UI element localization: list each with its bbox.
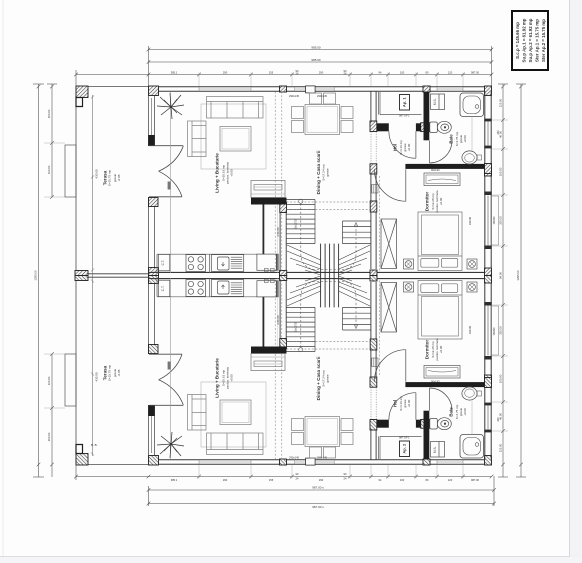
svg-text:290: 290	[223, 478, 228, 482]
dimension line: right outer total	[516, 84, 526, 477]
svg-text:Hol: Hol	[393, 400, 398, 407]
room label: Dormitor Ap1	[425, 190, 444, 213]
svg-text:155: 155	[269, 478, 274, 482]
svg-text:Living + Bucatarie: Living + Bucatarie	[215, 358, 220, 398]
svg-text:Ster Ap.1 = 15.75 mp: Ster Ap.1 = 15.75 mp	[535, 19, 540, 62]
top half of duplex plan	[65, 86, 499, 276]
room label: Terasa Ap2	[102, 365, 121, 382]
svg-text:+0.00: +0.00	[439, 197, 443, 205]
svg-text:Su.p Ap.1 = 61.92 mp: Su.p Ap.1 = 61.92 mp	[522, 18, 527, 62]
svg-text:Dining + Casa scarii: Dining + Casa scarii	[316, 357, 321, 401]
room label: Dormitor Ap2	[425, 338, 444, 361]
page left faint edge	[2, 0, 4, 556]
svg-text:290: 290	[319, 71, 324, 75]
dimension line: bottom total 2	[147, 502, 496, 506]
dimension line: top total 2	[147, 60, 494, 64]
svg-text:335.00: 335.00	[499, 326, 503, 335]
svg-text:Dormitor: Dormitor	[425, 192, 430, 212]
svg-text:S.c.p = 145.66 mp: S.c.p = 145.66 mp	[515, 22, 520, 59]
svg-text:385.1: 385.1	[171, 71, 178, 75]
svg-text:Su.p Ap.2 = 61.92 mp: Su.p Ap.2 = 61.92 mp	[528, 18, 533, 62]
svg-text:290x145: 290x145	[317, 94, 328, 98]
svg-text:1295.00: 1295.00	[34, 270, 38, 281]
svg-text:+0.00: +0.00	[407, 143, 411, 151]
room label: Dining+Casa scarii Ap2	[316, 357, 330, 401]
svg-text:+0.00: +0.00	[407, 399, 411, 407]
page right edge shading	[570, 0, 582, 563]
svg-text:C.T.: C.T.	[161, 260, 165, 266]
svg-text:385.1: 385.1	[171, 478, 178, 482]
svg-text:120: 120	[448, 71, 453, 75]
svg-text:+0.00: +0.00	[230, 169, 234, 177]
svg-text:16x17/28: 16x17/28	[295, 218, 298, 229]
svg-text:+0.00: +0.00	[463, 408, 467, 416]
svg-text:S=15.75 mp: S=15.75 mp	[108, 170, 112, 187]
svg-text:987.00: 987.00	[471, 478, 479, 482]
svg-text:Hol: Hol	[393, 144, 398, 151]
svg-text:290: 290	[319, 478, 324, 482]
dimension line: bottom detail	[74, 465, 493, 480]
dimension line: left inner segments	[44, 84, 65, 477]
svg-text:98? SP 1: 98? SP 1	[399, 114, 410, 118]
svg-text:115.00: 115.00	[499, 443, 503, 452]
svg-text:290x145: 290x145	[289, 94, 300, 98]
room label: Baie Ap2	[449, 404, 468, 419]
svg-text:+0.00: +0.00	[439, 345, 443, 353]
svg-text:240.00: 240.00	[276, 315, 280, 325]
dimension line: right inner	[492, 84, 509, 477]
svg-text:gresie: gresie	[325, 374, 329, 383]
svg-text:120: 120	[448, 478, 453, 482]
page bottom edge shading	[0, 557, 582, 563]
svg-text:100: 100	[400, 478, 405, 482]
svg-text:Dormitor: Dormitor	[425, 340, 430, 360]
svg-text:-0.05: -0.05	[117, 174, 121, 181]
svg-text:C.T.: C.T.	[161, 285, 165, 291]
svg-text:240.00: 240.00	[276, 227, 280, 237]
room label: Living+Bucatarie Ap2	[215, 358, 234, 398]
svg-text:98? SP 1: 98? SP 1	[399, 436, 410, 440]
svg-text:115.00: 115.00	[499, 98, 503, 107]
svg-text:Living + Bucatarie: Living + Bucatarie	[215, 153, 220, 193]
svg-text:-0.05: -0.05	[117, 369, 121, 376]
svg-text:985.00: 985.00	[311, 58, 321, 62]
dimension line: top detail	[74, 70, 493, 86]
svg-text:200.00: 200.00	[47, 432, 51, 441]
svg-text:16x17/28: 16x17/28	[295, 321, 298, 332]
svg-text:+0.00: +0.00	[463, 135, 467, 143]
svg-text:340.00: 340.00	[468, 325, 472, 334]
svg-text:46.00: 46.00	[499, 413, 503, 420]
svg-text:Baie: Baie	[449, 407, 454, 417]
svg-text:gresie: gresie	[325, 168, 329, 177]
svg-text:160/90: 160/90	[492, 216, 496, 224]
svg-text:160.00: 160.00	[47, 165, 51, 174]
bottom half of duplex plan (mirrored)	[65, 276, 499, 466]
svg-text:335.00: 335.00	[499, 216, 503, 225]
svg-text:Ap. 1: Ap. 1	[401, 97, 406, 108]
svg-text:985.00: 985.00	[311, 45, 321, 49]
room label: Hol Ap2	[393, 396, 412, 411]
label: Ap.2 entry box	[399, 436, 410, 457]
svg-text:987.00: 987.00	[471, 71, 479, 75]
svg-text:987.00 s: 987.00 s	[312, 505, 324, 509]
svg-text:290x145: 290x145	[289, 455, 300, 459]
svg-text:B. B.: B. B.	[91, 443, 98, 447]
svg-text:94.00: 94.00	[499, 272, 503, 279]
svg-text:155: 155	[269, 71, 274, 75]
svg-text:Ap. 2: Ap. 2	[401, 443, 406, 454]
svg-text:200.00: 200.00	[47, 109, 51, 118]
svg-text:+0.00: +0.00	[230, 374, 234, 382]
room label: Baie Ap1	[449, 131, 468, 146]
svg-text:430.00: 430.00	[95, 372, 99, 382]
svg-text:160.00: 160.00	[47, 376, 51, 385]
room label: Dining+Casa scarii Ap1	[316, 151, 330, 195]
svg-text:M.S.: M.S.	[433, 446, 437, 453]
svg-text:90x190: 90x190	[431, 380, 440, 384]
room label: Terasa Ap1	[102, 170, 121, 187]
svg-text:105.00: 105.00	[499, 374, 503, 383]
svg-text:290: 290	[223, 71, 228, 75]
svg-text:46.00: 46.00	[499, 131, 503, 138]
svg-text:M.S.: M.S.	[433, 98, 437, 105]
small interior dim labels	[95, 94, 500, 459]
svg-text:S=15.75 mp: S=15.75 mp	[108, 365, 112, 382]
svg-text:987.00 s: 987.00 s	[312, 486, 324, 490]
svg-text:100: 100	[400, 71, 405, 75]
svg-text:160/90: 160/90	[492, 327, 496, 335]
room label: Hol Ap1	[393, 140, 412, 155]
label: Ap.1 entry box	[399, 95, 410, 118]
svg-text:Dining + Casa scarii: Dining + Casa scarii	[316, 151, 321, 195]
svg-text:1295.00: 1295.00	[516, 270, 520, 281]
svg-text:340.00: 340.00	[468, 216, 472, 225]
svg-text:90x190: 90x190	[431, 168, 440, 172]
dimension line: bottom total 1	[147, 476, 496, 506]
svg-text:Ster Ap.2 = 15.75 mp: Ster Ap.2 = 15.75 mp	[541, 19, 546, 62]
svg-text:105.00: 105.00	[499, 167, 503, 176]
dimension line: top total 1	[147, 46, 494, 86]
room label: Living+Bucatarie Ap1	[215, 153, 234, 193]
svg-text:290x145: 290x145	[317, 455, 328, 459]
legend box with areas	[512, 11, 548, 70]
svg-text:Baie: Baie	[449, 134, 454, 144]
dimension line: left outer	[33, 84, 44, 477]
svg-text:430.00: 430.00	[95, 169, 99, 179]
